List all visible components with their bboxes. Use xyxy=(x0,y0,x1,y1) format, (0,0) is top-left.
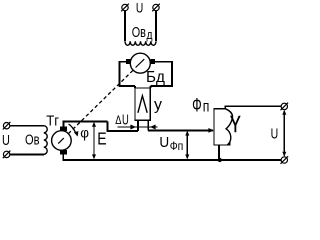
svg-text:U: U xyxy=(271,126,279,143)
left excitation terminal bottom xyxy=(3,151,11,159)
svg-text:Ов: Ов xyxy=(132,24,146,41)
svg-text:Фп: Фп xyxy=(170,139,184,153)
shaft stroke inside motor circle xyxy=(136,59,145,67)
svg-text:U: U xyxy=(2,132,10,149)
svg-text:п: п xyxy=(203,99,210,116)
delta-U annotation line with inward arrows xyxy=(118,126,158,128)
svg-text:U: U xyxy=(122,111,129,128)
tachogenerator Tg circle xyxy=(52,131,72,151)
terminal top-left of field winding xyxy=(121,4,129,12)
motor Bd armature circle xyxy=(130,53,150,73)
amplifier U box xyxy=(135,88,150,120)
wire Fp box bottom to bus xyxy=(218,145,220,160)
motor brush left xyxy=(126,59,130,64)
U output measuring arrow xyxy=(283,111,285,156)
wire Tg top brush up and right xyxy=(64,122,108,127)
wire top terminal to coil xyxy=(10,125,44,127)
left excitation terminal top xyxy=(3,122,11,130)
dashed shaft coupling Tg to motor xyxy=(68,70,133,133)
wire Tg bottom brush to bus xyxy=(63,155,281,161)
right output terminal top xyxy=(281,103,289,111)
svg-text:Y: Y xyxy=(230,111,241,137)
svg-text:U: U xyxy=(136,0,143,16)
amplifier neck right lead xyxy=(147,120,149,130)
excitation winding Ov coil (right side scallops) xyxy=(44,126,47,155)
field winding OVd coil (scalloped bottom) xyxy=(125,41,156,45)
motor brush right xyxy=(150,59,154,64)
Tg brush top xyxy=(60,127,67,132)
Tg brush bottom xyxy=(60,150,67,155)
shaft stroke inside Tg circle xyxy=(58,138,64,144)
wire bottom terminal to coil xyxy=(10,153,44,155)
wire amp output to Fp box xyxy=(148,129,213,131)
label U_Fp xyxy=(159,135,183,153)
right output terminal bottom xyxy=(281,156,289,164)
wire from left brush around to amplifier (left loop) xyxy=(120,62,136,86)
svg-text:U: U xyxy=(159,135,169,151)
E measuring arrow xyxy=(93,124,95,158)
svg-text:Бд: Бд xyxy=(146,69,165,86)
junction dot on bus xyxy=(218,158,222,162)
wire from left top terminal down xyxy=(124,11,126,42)
label OVd xyxy=(132,24,153,42)
stub right amp to motor loop xyxy=(149,86,151,88)
phi rotation arrow arc xyxy=(69,124,76,133)
Fp functional converter box xyxy=(214,109,230,145)
stub left amp to motor loop xyxy=(134,86,136,88)
wire from right top terminal down xyxy=(155,11,157,42)
Fp box top stub to wire xyxy=(225,106,281,108)
lambda symbol inside amplifier xyxy=(138,96,147,113)
wire step down to amp neck left xyxy=(108,122,138,131)
svg-text:Ф: Ф xyxy=(192,96,202,117)
svg-text:Ов: Ов xyxy=(25,132,40,149)
label Fp xyxy=(192,96,209,117)
svg-text:Δ: Δ xyxy=(115,115,121,127)
terminal top-right of field winding xyxy=(152,4,160,12)
svg-text:φ: φ xyxy=(80,125,89,140)
amplifier neck left lead xyxy=(137,120,139,131)
svg-text:д: д xyxy=(147,27,153,42)
U_Fp measuring arrow xyxy=(186,132,188,158)
wire from right brush around to amplifier (right loop) xyxy=(150,62,172,86)
svg-text:у: у xyxy=(154,97,162,114)
svg-text:E: E xyxy=(97,129,106,149)
Fp wavy right edge xyxy=(225,109,232,145)
svg-text:Тг: Тг xyxy=(46,113,59,130)
